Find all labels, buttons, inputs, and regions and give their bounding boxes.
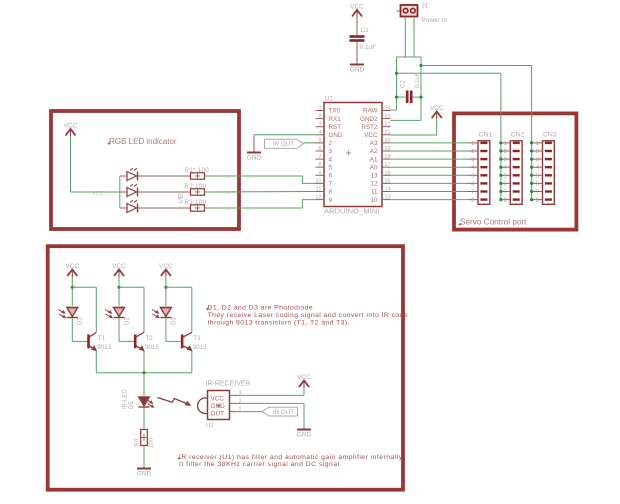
svg-text:3: 3 bbox=[536, 157, 539, 163]
frame photodiode receiver box bbox=[48, 246, 403, 490]
wire IC to CN1 pin 1 bbox=[391, 142, 468, 144]
CN1 pin 4 stub bbox=[468, 166, 479, 168]
wire VCC to C1 bbox=[356, 18, 358, 36]
svg-text:9: 9 bbox=[318, 170, 321, 176]
svg-text:5: 5 bbox=[318, 138, 321, 144]
svg-text:D1: D1 bbox=[78, 317, 84, 325]
svg-text:OUT: OUT bbox=[211, 411, 225, 418]
CN1 pin 1 stub bbox=[468, 142, 479, 144]
pin 9 stub (left) bbox=[316, 174, 325, 176]
laser arrows D2 bbox=[105, 310, 111, 318]
svg-text:GND2: GND2 bbox=[360, 116, 378, 123]
svg-text:CN1: CN1 bbox=[479, 132, 493, 139]
node RAW-to-CN2 junction bbox=[395, 72, 398, 75]
op-amp U1 ARDUINO_MINI body bbox=[324, 103, 382, 207]
svg-text:2: 2 bbox=[329, 140, 333, 147]
CN1 pin bar 7 bbox=[480, 190, 487, 192]
svg-text:13: 13 bbox=[370, 173, 378, 180]
pin 4 stub (left) bbox=[316, 134, 325, 136]
CN2 pin bar 8 bbox=[513, 198, 520, 200]
wire C2 left bbox=[397, 96, 407, 98]
svg-text:11: 11 bbox=[371, 189, 378, 196]
node CN2 junction 3 bbox=[499, 158, 502, 161]
svg-text:6: 6 bbox=[318, 146, 321, 152]
CN2 pin bar 3 bbox=[513, 158, 520, 160]
svg-text:17: 17 bbox=[385, 162, 391, 168]
resistor R2 bbox=[191, 189, 205, 195]
svg-text:24: 24 bbox=[385, 106, 391, 112]
pin 11 stub (left) bbox=[316, 191, 325, 193]
CN2 pin bar 4 bbox=[513, 166, 520, 168]
wire R3 out bbox=[205, 207, 240, 209]
photodiode D2 bbox=[114, 308, 125, 317]
wire VCC down to LED bus bbox=[70, 137, 72, 193]
svg-text:It filter the 38KHz carrier si: It filter the 38KHz carrier signal and D… bbox=[179, 461, 340, 468]
svg-text:C2: C2 bbox=[401, 80, 407, 88]
origin cross U2 bbox=[217, 404, 222, 409]
wire bus to IR LED bbox=[143, 373, 145, 396]
CN2 pin 2 stub bbox=[500, 150, 511, 152]
svg-text:GND: GND bbox=[247, 155, 262, 162]
laser arrows D1 bbox=[58, 310, 64, 318]
node VCC split D3 bbox=[164, 286, 167, 289]
svg-text:8: 8 bbox=[504, 198, 507, 204]
svg-text:6: 6 bbox=[329, 173, 333, 180]
svg-text:GND: GND bbox=[211, 403, 226, 410]
resistor R3 bbox=[191, 205, 205, 211]
svg-text:18: 18 bbox=[385, 154, 391, 160]
wire RAW net vertical bbox=[396, 57, 398, 110]
CN2 pin 7 stub bbox=[500, 191, 511, 193]
svg-text:7: 7 bbox=[536, 190, 539, 196]
wire D3 to base bbox=[165, 318, 167, 341]
svg-text:Power In: Power In bbox=[422, 17, 448, 24]
wire down to ground bbox=[253, 135, 255, 152]
wire RAW to pin24 bbox=[391, 109, 397, 111]
svg-text:3: 3 bbox=[318, 122, 321, 128]
svg-text:D5: D5 bbox=[129, 401, 135, 409]
svg-text:through 9013 transistors (T1,: through 9013 transistors (T1, T2 and T3)… bbox=[208, 320, 351, 327]
wire IC to CN1 pin 2 bbox=[391, 150, 468, 152]
svg-text:9013: 9013 bbox=[97, 344, 111, 351]
pin 16 stub (right) bbox=[382, 174, 391, 176]
svg-text:3: 3 bbox=[329, 148, 333, 155]
pin 21 stub (right) bbox=[382, 134, 391, 136]
svg-text:1: 1 bbox=[471, 141, 474, 147]
node CN3 junction 3 bbox=[530, 158, 533, 161]
pin 18 stub (right) bbox=[382, 158, 391, 160]
svg-text:9013: 9013 bbox=[145, 344, 159, 351]
node VCC split D2 bbox=[117, 286, 120, 289]
svg-text:100: 100 bbox=[149, 437, 155, 448]
wire IC to CN1 pin 6 bbox=[391, 182, 468, 184]
node CN3 junction 2 bbox=[530, 149, 533, 152]
svg-text:0.1uF: 0.1uF bbox=[415, 72, 421, 88]
svg-text:U1: U1 bbox=[325, 96, 334, 103]
wire GND2 to pin23 bbox=[391, 119, 422, 121]
pin 23 stub (right) bbox=[382, 118, 391, 120]
capacitor C2 bbox=[406, 91, 409, 104]
ground (C1) bbox=[350, 64, 364, 66]
CN1 pin 3 stub bbox=[468, 158, 479, 160]
svg-text:9: 9 bbox=[329, 197, 333, 204]
node emitter bus junction bbox=[142, 371, 145, 374]
CN3 pin 1 stub bbox=[532, 142, 543, 144]
CN3 pin bar 4 bbox=[545, 166, 552, 168]
svg-text:9013: 9013 bbox=[193, 344, 207, 351]
pin 2 stub (left) bbox=[316, 118, 325, 120]
pin 14 stub (right) bbox=[382, 191, 391, 193]
svg-text:D2: D2 bbox=[124, 317, 130, 325]
wire power loop top bbox=[397, 56, 422, 58]
wire node to collector T3 bbox=[166, 286, 192, 288]
svg-text:D3: D3 bbox=[171, 317, 177, 325]
node CN3 junction 1 bbox=[530, 141, 533, 144]
transistor T1 bbox=[87, 335, 90, 349]
transistor T3 bbox=[181, 335, 184, 349]
svg-text:A2: A2 bbox=[370, 148, 378, 155]
CN1 pin 8 stub bbox=[468, 199, 479, 201]
CN2 pin bar 5 bbox=[513, 174, 520, 176]
CN3 pin 5 stub bbox=[532, 174, 543, 176]
svg-text:C1: C1 bbox=[361, 27, 370, 34]
wire C2 right bbox=[412, 96, 421, 98]
CN1 pin 5 stub bbox=[468, 174, 479, 176]
LED LED3 bbox=[120, 207, 127, 209]
connector J1 bbox=[401, 5, 418, 17]
svg-text:13: 13 bbox=[385, 195, 391, 201]
wire net to CN3 column bbox=[421, 65, 532, 67]
laser beam arrow bbox=[158, 398, 188, 405]
svg-text:5: 5 bbox=[536, 173, 539, 179]
svg-text:R3 100: R3 100 bbox=[185, 199, 207, 206]
CN3 pin 4 stub bbox=[532, 166, 543, 168]
svg-text:They receive Laser coding sign: They receive Laser coding signal and con… bbox=[208, 312, 409, 319]
CN3 pin 3 stub bbox=[532, 158, 543, 160]
pin 22 stub (right) bbox=[382, 126, 391, 128]
svg-text:15: 15 bbox=[385, 178, 391, 184]
CN3 pin 6 stub bbox=[532, 182, 543, 184]
CN1 pin bar 4 bbox=[480, 166, 487, 168]
svg-text:16: 16 bbox=[385, 170, 391, 176]
ground (R4) bbox=[137, 468, 151, 470]
laser arrows D3 bbox=[152, 310, 158, 318]
wire pin1 to IR OUT flag bbox=[237, 411, 262, 413]
capacitor C1 bbox=[350, 35, 365, 38]
pin 10 stub (left) bbox=[316, 182, 325, 184]
pin 1 stub (left) bbox=[316, 110, 325, 112]
svg-text:IR-LED: IR-LED bbox=[123, 389, 129, 409]
wire LED1 net to pin10 bbox=[205, 176, 316, 183]
CN2 pin 6 stub bbox=[500, 182, 511, 184]
pin 24 stub (right) bbox=[382, 110, 391, 112]
svg-text:10: 10 bbox=[370, 197, 378, 204]
connector CN3 body bbox=[543, 141, 555, 205]
wire net to CN2 column bbox=[397, 72, 501, 74]
node C2 right junction bbox=[419, 96, 422, 99]
CN2 pin 4 stub bbox=[500, 166, 511, 168]
pin 5 stub (left) bbox=[316, 142, 325, 144]
wire IR OUT flag to pin5 bbox=[304, 142, 316, 144]
node CN2 junction 2 bbox=[499, 149, 502, 152]
CN3 pin bar 2 bbox=[545, 150, 552, 152]
wire VCC to pin3 bbox=[303, 388, 305, 395]
svg-text:14: 14 bbox=[385, 187, 391, 193]
wire LED2 to R2 bbox=[138, 191, 191, 193]
CN1 pin 6 stub bbox=[468, 182, 479, 184]
wire VCC to pin21 bbox=[436, 119, 438, 135]
svg-text:U2: U2 bbox=[206, 423, 214, 429]
CN2 pin bar 7 bbox=[513, 190, 520, 192]
CN1 pin bar 5 bbox=[480, 174, 487, 176]
svg-text:4: 4 bbox=[318, 130, 321, 136]
wire node to collector T2 bbox=[119, 286, 144, 288]
wire J1 pin1 down bbox=[404, 17, 406, 57]
svg-text:A0: A0 bbox=[370, 164, 378, 171]
wire R1 out bbox=[205, 175, 240, 177]
CN1 pin 7 stub bbox=[468, 191, 479, 193]
svg-text:RX1: RX1 bbox=[329, 116, 342, 123]
svg-text:8: 8 bbox=[536, 198, 539, 204]
CN3 pin bar 5 bbox=[545, 174, 552, 176]
wire pin2 to ground bbox=[237, 402, 304, 404]
svg-text:19: 19 bbox=[385, 146, 391, 152]
wire CN3 feed vertical bbox=[531, 66, 533, 200]
origin cross U1 bbox=[346, 151, 351, 156]
svg-text:6: 6 bbox=[536, 181, 539, 187]
U2 pin 3 stub bbox=[230, 394, 238, 396]
node CN2 junction 4 bbox=[499, 166, 502, 169]
svg-text:8: 8 bbox=[471, 198, 474, 204]
svg-text:12: 12 bbox=[315, 195, 321, 201]
CN3 pin bar 3 bbox=[545, 158, 552, 160]
CN1 pin bar 3 bbox=[480, 158, 487, 160]
node CN2 junction 8 bbox=[499, 198, 502, 201]
svg-text:5: 5 bbox=[471, 173, 474, 179]
net flag IR OUT (to pin5) bbox=[265, 139, 304, 148]
svg-text:A3: A3 bbox=[370, 140, 378, 147]
svg-text:5: 5 bbox=[504, 173, 507, 179]
CN2 pin 8 stub bbox=[500, 199, 511, 201]
CN2 pin 5 stub bbox=[500, 174, 511, 176]
pin 6 stub (left) bbox=[316, 150, 325, 152]
wire LED3 to R3 bbox=[138, 207, 191, 209]
svg-text:5: 5 bbox=[329, 164, 333, 171]
wire LED3 net to pin12 bbox=[205, 200, 316, 208]
svg-text:23: 23 bbox=[385, 114, 391, 120]
svg-text:1: 1 bbox=[504, 141, 507, 147]
svg-text:3: 3 bbox=[504, 157, 507, 163]
node CN2 junction 1 bbox=[499, 141, 502, 144]
node CN3 junction 5 bbox=[530, 174, 533, 177]
node C2 left junction bbox=[395, 96, 398, 99]
wire IC to CN1 pin 8 bbox=[391, 199, 468, 201]
svg-text:3: 3 bbox=[471, 157, 474, 163]
svg-text:7: 7 bbox=[504, 190, 507, 196]
connector CN1 body bbox=[478, 141, 490, 205]
IR receiver U2 body bbox=[198, 398, 208, 414]
svg-text:GND: GND bbox=[137, 471, 152, 478]
LED LED2 bbox=[120, 191, 127, 193]
wire C1 to GND bbox=[356, 42, 358, 64]
svg-text:A1: A1 bbox=[370, 156, 378, 163]
CN2 pin bar 6 bbox=[513, 182, 520, 184]
svg-text:RST2: RST2 bbox=[361, 124, 378, 131]
node CN2 junction 5 bbox=[499, 174, 502, 177]
pin 15 stub (right) bbox=[382, 182, 391, 184]
wire IC to CN1 pin 3 bbox=[391, 158, 468, 160]
svg-text:4: 4 bbox=[329, 156, 333, 163]
ground (U2) bbox=[297, 429, 311, 431]
CN1 pin bar 6 bbox=[480, 182, 487, 184]
wire VCC to node bbox=[71, 277, 73, 306]
wire GND pin4 bbox=[254, 134, 316, 136]
wire IC to CN1 pin 5 bbox=[391, 174, 468, 176]
svg-text:IR OUT: IR OUT bbox=[273, 141, 294, 148]
wire emitter T1 bbox=[95, 351, 97, 373]
U2 pin 2 stub bbox=[230, 402, 238, 404]
pin 13 stub (right) bbox=[382, 199, 391, 201]
svg-text:21: 21 bbox=[385, 130, 391, 136]
svg-text:2: 2 bbox=[504, 149, 507, 155]
wire emitter T2 bbox=[143, 351, 145, 373]
wire LED anode bus bbox=[119, 176, 121, 208]
pin 19 stub (right) bbox=[382, 150, 391, 152]
svg-text:R4: R4 bbox=[135, 438, 141, 446]
transistor T2 bbox=[134, 335, 137, 349]
wire VCC to node bbox=[118, 277, 120, 306]
pin 8 stub (left) bbox=[316, 166, 325, 168]
node CN2 junction 7 bbox=[499, 190, 502, 193]
svg-text:8: 8 bbox=[318, 162, 321, 168]
frame RGB LED indicator box bbox=[51, 111, 239, 229]
svg-text:IR OUT: IR OUT bbox=[273, 409, 294, 416]
svg-text:8: 8 bbox=[329, 189, 333, 196]
wire IC to CN1 pin 7 bbox=[391, 191, 468, 193]
svg-text:2: 2 bbox=[471, 149, 474, 155]
photodiode D1 bbox=[67, 308, 78, 317]
CN2 pin 1 stub bbox=[500, 142, 511, 144]
svg-text:GND: GND bbox=[329, 132, 343, 139]
svg-text:RAW: RAW bbox=[363, 108, 378, 115]
CN2 pin bar 2 bbox=[513, 150, 520, 152]
svg-text:R2 100: R2 100 bbox=[185, 183, 207, 190]
CN3 pin bar 7 bbox=[545, 190, 552, 192]
LED IR-LED D5 bbox=[139, 397, 150, 406]
svg-text:IR-RECEIVER: IR-RECEIVER bbox=[206, 381, 251, 388]
node CN3 junction 4 bbox=[530, 166, 533, 169]
svg-text:VCC: VCC bbox=[211, 396, 225, 403]
svg-text:CN2: CN2 bbox=[511, 132, 525, 139]
wire LED2 net to pin11 bbox=[205, 191, 316, 194]
svg-text:7: 7 bbox=[318, 154, 321, 160]
J1 pin1 mark bbox=[397, 10, 401, 12]
svg-text:D1, D2 and D3 are Photodiode: D1, D2 and D3 are Photodiode bbox=[208, 305, 314, 312]
svg-text:10: 10 bbox=[315, 178, 321, 184]
svg-text:2: 2 bbox=[536, 149, 539, 155]
ground (U1 pin4) bbox=[247, 152, 261, 154]
svg-text:GND: GND bbox=[350, 67, 365, 74]
connector CN2 body bbox=[510, 141, 522, 205]
svg-text:R1* 100: R1* 100 bbox=[185, 167, 210, 174]
node CN3 junction 7 bbox=[530, 190, 533, 193]
svg-text:11: 11 bbox=[316, 187, 322, 193]
svg-text:RST: RST bbox=[329, 124, 342, 131]
node VCC split D1 bbox=[71, 286, 74, 289]
svg-text:ARDUINO_MINI: ARDUINO_MINI bbox=[324, 207, 380, 216]
wire D2 to base bbox=[118, 318, 120, 341]
node CN3 junction 6 bbox=[530, 182, 533, 185]
wire IC to CN1 pin 4 bbox=[391, 166, 468, 168]
wire D1 to base bbox=[71, 318, 73, 341]
net flag IR OUT (from U2) bbox=[262, 407, 298, 416]
svg-text:22: 22 bbox=[385, 122, 391, 128]
svg-text:T2: T2 bbox=[146, 335, 154, 342]
CN1 pin 2 stub bbox=[468, 150, 479, 152]
svg-text:1: 1 bbox=[536, 141, 539, 147]
CN2 pin bar 1 bbox=[513, 142, 520, 144]
svg-text:J1: J1 bbox=[422, 3, 429, 10]
wire GND2 net vertical bbox=[420, 57, 422, 120]
node CN2 junction 6 bbox=[499, 182, 502, 185]
CN3 pin 7 stub bbox=[532, 191, 543, 193]
CN3 pin 2 stub bbox=[532, 150, 543, 152]
svg-text:6: 6 bbox=[471, 181, 474, 187]
U2 pin 1 stub bbox=[230, 411, 238, 413]
svg-text:20: 20 bbox=[385, 138, 391, 144]
svg-text:VCC: VCC bbox=[364, 132, 378, 139]
node GND2-to-CN3 junction bbox=[419, 64, 422, 67]
pin 3 stub (left) bbox=[316, 126, 325, 128]
svg-text:T3: T3 bbox=[193, 335, 201, 342]
wire LED1 to R1 bbox=[138, 175, 191, 177]
CN3 pin bar 1 bbox=[545, 142, 552, 144]
svg-text:2: 2 bbox=[318, 114, 321, 120]
CN3 pin bar 8 bbox=[545, 198, 552, 200]
svg-text:Servo Control port: Servo Control port bbox=[460, 218, 527, 227]
LED LED1 bbox=[120, 175, 127, 177]
wire R4 to ground bbox=[143, 446, 145, 468]
CN3 pin bar 6 bbox=[545, 182, 552, 184]
wire VCC to node bbox=[165, 277, 167, 306]
wire R2 out bbox=[205, 191, 240, 193]
svg-text:6: 6 bbox=[504, 181, 507, 187]
wire LED nets crossing frame bbox=[236, 175, 242, 177]
svg-text:GND: GND bbox=[297, 432, 312, 439]
wire J1 pin2 down bbox=[413, 17, 415, 57]
pin 20 stub (right) bbox=[382, 142, 391, 144]
wire CN2 feed vertical bbox=[500, 73, 502, 199]
pin 17 stub (right) bbox=[382, 166, 391, 168]
pin 7 stub (left) bbox=[316, 158, 325, 160]
photodiode D3 bbox=[160, 308, 171, 317]
wire IR LED to R4 bbox=[143, 408, 145, 430]
svg-text:1: 1 bbox=[318, 106, 321, 112]
CN1 pin bar 1 bbox=[480, 142, 487, 144]
wire node to collector T1 bbox=[72, 286, 96, 288]
svg-text:12: 12 bbox=[370, 181, 378, 188]
CN3 pin 8 stub bbox=[532, 199, 543, 201]
node CN3 junction 8 bbox=[530, 198, 533, 201]
CN2 pin 3 stub bbox=[500, 158, 511, 160]
svg-text:CN3: CN3 bbox=[543, 132, 557, 139]
CN1 pin bar 2 bbox=[480, 150, 487, 152]
svg-text:0.1uF: 0.1uF bbox=[360, 44, 377, 51]
CN1 pin bar 8 bbox=[480, 198, 487, 200]
resistor R4 bbox=[141, 430, 148, 446]
svg-text:T1: T1 bbox=[98, 335, 106, 342]
pin 12 stub (left) bbox=[316, 199, 325, 201]
